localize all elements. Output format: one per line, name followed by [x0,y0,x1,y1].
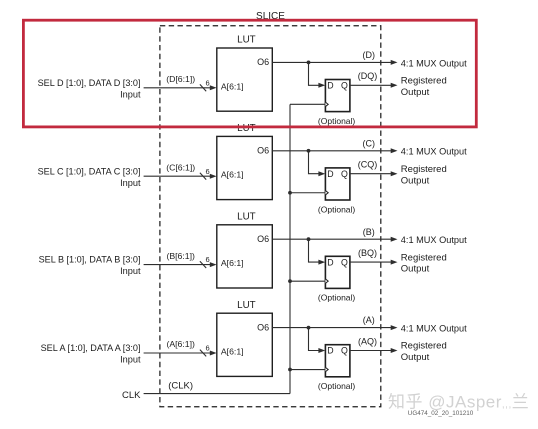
svg-text:(C[6:1]): (C[6:1]) [166,162,195,172]
svg-text:(AQ): (AQ) [358,336,377,346]
arrowhead into FF B D input [318,260,325,265]
arrowhead (A) mux output [391,325,398,330]
svg-text:Q: Q [341,81,348,91]
wire: LUT D O6 output [272,61,394,63]
input label SEL B / DATA B [39,255,141,277]
svg-text:4:1 MUX Output: 4:1 MUX Output [401,235,467,245]
wire: FF D Q output (DQ) [350,84,394,86]
svg-text:O6: O6 [257,322,269,332]
output label Registered Output (B) [401,252,447,274]
svg-text:(B): (B) [363,227,375,237]
svg-text:Q: Q [341,169,348,179]
wire: FF A Q output (AQ) [350,350,394,352]
wire: branch from O6 D down to FF D D input [309,62,324,85]
arrowhead into LUT B [210,262,217,267]
junction dot on O6 A wire [307,326,311,330]
arrowhead into LUT D [210,85,217,90]
input label SEL C / DATA C [38,166,141,188]
LUT A box [217,313,272,376]
svg-text:6: 6 [206,167,210,176]
wire: FF C Q output (CQ) [350,173,394,175]
svg-text:6: 6 [206,255,210,264]
wire: FF B Q output (BQ) [350,261,394,263]
svg-text:(Optional): (Optional) [318,116,355,126]
svg-text:4:1 MUX Output: 4:1 MUX Output [401,58,467,68]
svg-text:SEL C [1:0], DATA C [3:0]: SEL C [1:0], DATA C [3:0] [38,166,141,176]
svg-text:6: 6 [206,78,210,87]
svg-text:SEL A [1:0], DATA A [3:0]: SEL A [1:0], DATA A [3:0] [41,343,141,353]
SLICE boundary (dashed box) [160,26,381,407]
input label SEL D / DATA D [38,78,141,100]
svg-text:(CQ): (CQ) [358,160,378,170]
svg-text:(BQ): (BQ) [358,248,377,258]
svg-text:A[6:1]: A[6:1] [221,81,244,91]
highlight box (red) around D row [23,20,476,127]
arrowhead (D) mux output [391,60,398,65]
wire: clock branch to FF C [290,192,325,194]
svg-text:D: D [327,257,333,267]
svg-text:(A[6:1]): (A[6:1]) [166,339,195,349]
input label SEL A / DATA A [41,343,141,365]
wire: D input bus [144,87,212,89]
wire: branch from O6 C down to FF C D input [309,151,324,174]
svg-text:(CLK): (CLK) [168,380,193,391]
arrowhead into LUT C [210,174,217,179]
svg-text:A[6:1]: A[6:1] [221,347,244,357]
wire: clock branch to FF D [290,103,325,105]
output label Registered Output (C) [401,164,447,186]
svg-text:LUT: LUT [237,300,256,311]
arrowhead into FF A D input [318,348,325,353]
svg-text:Input: Input [120,178,141,188]
junction dot clock branch C [288,191,292,195]
svg-text:6: 6 [206,344,210,353]
arrowhead (DQ) registered output [391,83,398,88]
svg-text:(Optional): (Optional) [318,204,355,214]
wire: LUT C O6 output [272,150,394,152]
svg-text:LUT: LUT [237,35,256,46]
arrowhead (AQ) registered output [391,348,398,353]
svg-text:(D): (D) [363,50,376,60]
svg-text:Input: Input [120,266,141,276]
junction dot on O6 C wire [307,149,311,153]
wire: branch from O6 B down to FF B D input [309,239,324,262]
arrowhead (CQ) registered output [391,171,398,176]
svg-text:SEL D [1:0], DATA D [3:0]: SEL D [1:0], DATA D [3:0] [38,78,141,88]
svg-text:CLK: CLK [122,390,141,401]
svg-text:Output: Output [401,352,430,363]
svg-text:Registered: Registered [401,252,447,263]
svg-text:Output: Output [401,264,430,275]
wire: CLK vertical distribution net [289,104,291,393]
svg-text:(B[6:1]): (B[6:1]) [166,251,195,261]
svg-text:D: D [327,169,333,179]
junction dot clock branch B [288,279,292,283]
svg-text:O6: O6 [257,57,269,67]
svg-text:Input: Input [120,355,141,365]
svg-text:(Optional): (Optional) [318,381,355,391]
flip-flop C box [325,168,350,200]
svg-text:(Optional): (Optional) [318,293,355,303]
arrowhead into FF D D input [318,83,325,88]
bus width slash 6 on C input [200,167,210,180]
wire: LUT B O6 output [272,238,394,240]
bus width slash 6 on A input [200,344,210,357]
arrowhead (B) mux output [391,237,398,242]
LUT C box [217,136,272,199]
svg-text:(A): (A) [363,315,375,325]
svg-text:O6: O6 [257,146,269,156]
junction dot on O6 D wire [307,61,311,65]
bus width slash 6 on D input [200,78,210,91]
wire: clock branch to FF B [290,280,325,282]
svg-text:A[6:1]: A[6:1] [221,258,244,268]
junction dot clock branch A [288,368,292,372]
svg-text:LUT: LUT [237,123,256,134]
arrowhead (BQ) registered output [391,260,398,265]
wire: LUT A O6 output [272,327,394,329]
wire: clock branch to FF A [290,369,325,371]
output label Registered Output (D) [401,76,447,98]
FF D clock input triangle [325,102,328,106]
output label Registered Output (A) [401,341,447,363]
svg-text:(C): (C) [363,138,376,148]
wire: B input bus [144,264,212,266]
arrowhead into LUT A [210,351,217,356]
arrowhead into FF C D input [318,171,325,176]
FF B clock input triangle [325,279,328,283]
svg-text:Registered: Registered [401,164,447,175]
svg-text:SEL B [1:0], DATA B [3:0]: SEL B [1:0], DATA B [3:0] [39,255,141,265]
FF C clock input triangle [325,191,328,195]
FF A clock input triangle [325,367,328,371]
flip-flop B box [325,256,350,288]
flip-flop A box [325,345,350,377]
svg-text:Output: Output [401,175,430,186]
svg-text:D: D [327,81,333,91]
svg-text:(DQ): (DQ) [358,71,378,81]
svg-text:Q: Q [341,346,348,356]
svg-text:4:1 MUX Output: 4:1 MUX Output [401,147,467,157]
svg-text:Input: Input [120,89,141,99]
arrowhead (C) mux output [391,148,398,153]
svg-text:D: D [327,346,333,356]
svg-text:Output: Output [401,87,430,98]
wire: branch from O6 A down to FF A D input [309,328,324,351]
svg-text:A[6:1]: A[6:1] [221,170,244,180]
svg-text:Registered: Registered [401,341,447,352]
flip-flop D box [325,80,350,112]
svg-text:4:1 MUX Output: 4:1 MUX Output [401,324,467,334]
bus width slash 6 on B input [200,255,210,268]
svg-text:LUT: LUT [237,212,256,223]
svg-text:(D[6:1]): (D[6:1]) [166,74,195,84]
wire: A input bus [144,352,212,354]
wire: CLK input [144,393,290,395]
svg-text:Registered: Registered [401,76,447,87]
LUT B box [217,225,272,288]
svg-text:O6: O6 [257,234,269,244]
junction dot on O6 B wire [307,237,311,241]
LUT D box [217,48,272,111]
svg-text:Q: Q [341,257,348,267]
wire: C input bus [144,175,212,177]
